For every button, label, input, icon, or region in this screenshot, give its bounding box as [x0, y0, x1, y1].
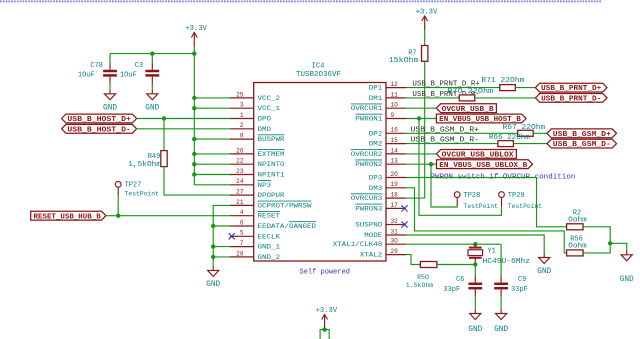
- svg-text:OVCUR_USB_B: OVCUR_USB_B: [442, 106, 495, 114]
- wire R50 to crystal: [437, 264, 475, 266]
- wire DM2 to R66: [406, 143, 498, 145]
- pin 17 PWRON3: [355, 202, 406, 214]
- svg-text:Self powered: Self powered: [300, 269, 351, 277]
- wire XTAL2 down: [406, 255, 420, 265]
- junction +3.3V/rail: [192, 51, 196, 55]
- svg-text:TP28: TP28: [464, 192, 481, 200]
- pin 7 GND_1: [230, 240, 280, 252]
- svg-text:OVCUR_USB_UBLOX: OVCUR_USB_UBLOX: [442, 152, 515, 160]
- svg-text:MODE: MODE: [364, 232, 382, 240]
- wire XTAL1 to crystal and C9: [406, 243, 501, 245]
- svg-text:7: 7: [240, 240, 244, 247]
- svg-text:2O: 2O: [391, 171, 399, 178]
- wire rail to pin 22: [194, 163, 230, 165]
- svg-text:USB_B_HOST_D-: USB_B_HOST_D-: [67, 126, 131, 134]
- junction rail/pin22: [192, 162, 196, 166]
- svg-text:22: 22: [236, 158, 244, 165]
- wire rail to pin 23: [194, 174, 230, 176]
- wire R56 to junction: [583, 243, 610, 253]
- junction rail/pin23: [192, 172, 196, 176]
- junction pin28: [211, 255, 215, 259]
- wire R49 to DPOPUR pin 27: [164, 167, 230, 196]
- wire RESET_USB_HUB_B to pin 4: [106, 215, 230, 217]
- ground C6: [468, 309, 482, 334]
- wire OVRCUR1 to label: [406, 107, 436, 109]
- svg-text:GND: GND: [468, 326, 482, 334]
- IC IC4 TUSB2036VF body: [254, 83, 386, 262]
- svg-text:3O: 3O: [391, 238, 399, 245]
- wire +3.3V to R7: [424, 30, 426, 46]
- wire +3.3V rail down: [193, 54, 195, 185]
- svg-text:1,5kOhm: 1,5kOhm: [128, 161, 161, 169]
- svg-text:DPO: DPO: [258, 116, 272, 124]
- wire R66 to label: [513, 143, 547, 145]
- resistor R50: [420, 262, 437, 268]
- wire rail to pin 8: [194, 138, 230, 140]
- svg-text:GND: GND: [103, 104, 117, 112]
- svg-text:NPINTO: NPINTO: [258, 161, 285, 169]
- pin 4 RESET: [230, 209, 280, 221]
- wire rail to pin 3: [194, 107, 230, 109]
- no-connect pin 32 SUSPND: [401, 221, 407, 227]
- top border dashed line: [0, 0, 602, 2]
- svg-text:TUSB2O36VF: TUSB2O36VF: [296, 71, 341, 79]
- svg-text:DPOPUR: DPOPUR: [258, 192, 285, 200]
- wire PWRON2 to TP28: [431, 164, 457, 207]
- pin 31 MODE: [364, 228, 406, 240]
- svg-text:USB_B_PRNT_D+: USB_B_PRNT_D+: [541, 85, 601, 93]
- svg-text:OCPROT/PWRSW: OCPROT/PWRSW: [258, 202, 313, 210]
- pin 32 SUSPND: [355, 218, 406, 230]
- global label USB_B_GSM_D+: [547, 129, 617, 138]
- junction PWRON2/TP28: [429, 162, 433, 166]
- svg-text:33pF: 33pF: [511, 286, 528, 294]
- crystal Y1: [468, 244, 483, 264]
- wire DM3 to R56: [406, 188, 567, 253]
- wire R70 to label: [475, 97, 536, 99]
- wire cap top rail: [110, 53, 194, 55]
- junction bottom +3.3V: [322, 327, 326, 331]
- wire C3 top: [151, 54, 153, 63]
- svg-text:TestPoint: TestPoint: [464, 203, 498, 210]
- svg-text:DP3: DP3: [369, 175, 383, 183]
- svg-text:DP1: DP1: [369, 85, 383, 93]
- ground OCPROT net: [206, 266, 220, 289]
- pin 16 DP2: [369, 127, 406, 139]
- svg-text:EN_VBUS_USB_UBLOX_B: EN_VBUS_USB_UBLOX_B: [439, 162, 528, 170]
- svg-text:C3: C3: [135, 62, 143, 70]
- power +3.3V top-right: [422, 16, 428, 30]
- svg-text:1O: 1O: [391, 102, 399, 109]
- wire C9 to GND: [500, 297, 502, 310]
- svg-text:VCC_1: VCC_1: [258, 105, 281, 113]
- svg-text:XTAL2: XTAL2: [360, 252, 383, 260]
- svg-text:24: 24: [236, 178, 244, 185]
- svg-text:GND: GND: [537, 268, 551, 276]
- svg-text:RESET_USB_HUB_B: RESET_USB_HUB_B: [34, 213, 102, 221]
- pin 15 DM2: [369, 137, 406, 149]
- svg-text:Oohm: Oohm: [568, 216, 587, 224]
- pin 19 DM3: [369, 181, 406, 193]
- svg-text:27: 27: [236, 189, 244, 196]
- pin 29 XTAL2: [360, 248, 406, 260]
- wire XTAL1 node down to C9: [500, 244, 502, 275]
- ground C9: [494, 309, 508, 334]
- svg-text:11: 11: [391, 91, 399, 98]
- junction crystal top: [473, 242, 477, 246]
- resistor R71: [500, 85, 516, 91]
- svg-text:3: 3: [240, 102, 244, 109]
- junction PWRON1/TP29: [417, 116, 421, 120]
- svg-text:14: 14: [391, 147, 399, 154]
- wire R2 to junction: [583, 227, 610, 244]
- global label EN_VBUS_USB_HOST_B: [436, 114, 526, 123]
- pin 12 DP1: [369, 81, 406, 93]
- global label USB_B_GSM_D-: [547, 139, 617, 148]
- svg-text:IC4: IC4: [312, 63, 325, 71]
- no-connect pin 17 PWRON3: [401, 205, 407, 211]
- svg-text:EN_VBUS_USB_HOST_B: EN_VBUS_USB_HOST_B: [439, 116, 521, 124]
- pin 24 NP3: [230, 178, 271, 190]
- svg-text:17: 17: [391, 202, 399, 209]
- svg-text:C78: C78: [90, 62, 103, 70]
- wire to C6: [474, 265, 476, 276]
- svg-text:EXTMEM: EXTMEM: [258, 151, 285, 159]
- svg-text:4: 4: [240, 209, 244, 216]
- svg-text:NPINT1: NPINT1: [258, 172, 285, 180]
- pin 10 OVRCUR1: [351, 102, 406, 114]
- capacitor C9: [500, 276, 502, 283]
- svg-text:29: 29: [391, 248, 399, 255]
- test point TP27: [115, 181, 159, 197]
- wire MODE to GND: [406, 235, 544, 253]
- wire DP3 to R2: [406, 178, 567, 227]
- no-connect pin 5 EECLK: [229, 233, 235, 239]
- global label EN_VBUS_USB_UBLOX_B: [437, 160, 533, 169]
- svg-text:28: 28: [236, 250, 244, 257]
- svg-text:HC49U-6Mhz: HC49U-6Mhz: [483, 258, 531, 266]
- svg-text:1OuF: 1OuF: [78, 72, 95, 80]
- capacitor C9 plates: [494, 284, 508, 288]
- resistor R7: [422, 46, 428, 62]
- svg-text:DM3: DM3: [369, 185, 383, 193]
- svg-text:GND: GND: [206, 281, 220, 289]
- global label OVCUR_USB_B: [436, 104, 496, 113]
- svg-text:DP2: DP2: [369, 130, 383, 138]
- pin 25 VCC_2: [230, 91, 280, 103]
- pin 6 EEDATA/GANGED: [230, 219, 316, 231]
- svg-text:13: 13: [391, 158, 399, 165]
- svg-text:Oohm: Oohm: [568, 242, 587, 250]
- svg-text:OVRCUR3: OVRCUR3: [351, 195, 383, 203]
- svg-text:NP3: NP3: [258, 182, 272, 190]
- svg-text:8: 8: [240, 133, 244, 140]
- resistor R66: [498, 141, 514, 147]
- pin 1 DP0: [230, 112, 271, 124]
- wire R67 to label: [533, 132, 547, 134]
- resistor R56: [567, 250, 584, 256]
- wire PWRON1 to label: [406, 118, 436, 120]
- svg-text:R5O: R5O: [417, 274, 429, 281]
- wire DM1 to R70: [406, 97, 459, 99]
- svg-text:VCC_2: VCC_2: [258, 95, 281, 103]
- svg-text:USB_B_HOST_D+: USB_B_HOST_D+: [67, 116, 131, 124]
- wire R7 to OVRCUR3: [424, 61, 426, 198]
- svg-text:PWRON3: PWRON3: [355, 205, 382, 213]
- svg-text:BUSPWR: BUSPWR: [258, 136, 285, 144]
- svg-text:Y1: Y1: [487, 248, 495, 256]
- junction pin7: [211, 244, 215, 248]
- svg-text:GND: GND: [494, 326, 508, 334]
- wire OVRCUR2 to label: [406, 153, 437, 155]
- wire USB_B_HOST_D- to DM0: [137, 128, 230, 130]
- test point TP29: [499, 192, 543, 210]
- ground R2/R56: [620, 251, 634, 285]
- wire rail to pin 24: [194, 184, 230, 186]
- capacitor C78 plates: [103, 71, 117, 75]
- wire R71 to label: [515, 87, 535, 89]
- junction R2/R56: [608, 241, 612, 245]
- svg-text:5: 5: [240, 230, 244, 237]
- capacitor C3 plates: [145, 71, 159, 75]
- svg-text:15: 15: [391, 137, 399, 144]
- wire OVRCUR3 to R7: [406, 197, 425, 199]
- wire C78 bottom: [109, 84, 111, 90]
- svg-text:C6: C6: [456, 276, 464, 284]
- global label USB_B_HOST_D+: [62, 114, 137, 123]
- svg-text:21: 21: [236, 199, 244, 206]
- ground MODE: [537, 253, 551, 276]
- svg-text:RESET: RESET: [258, 213, 281, 221]
- wire TP27 down: [117, 196, 119, 216]
- svg-text:PWRON2: PWRON2: [355, 161, 382, 169]
- junction pin6: [211, 224, 215, 228]
- svg-text:32: 32: [391, 218, 399, 225]
- pin 27 DPOPUR: [230, 189, 285, 201]
- svg-text:R71 22Ohm: R71 22Ohm: [481, 77, 524, 85]
- svg-text:OVRCUR1: OVRCUR1: [351, 105, 383, 113]
- pin 13 PWRON2: [355, 158, 406, 170]
- wire DP0 to R49: [163, 119, 165, 151]
- capacitor C3: [151, 63, 153, 70]
- svg-text:XTAL1/CLK48: XTAL1/CLK48: [333, 241, 383, 249]
- svg-text:15kOhm: 15kOhm: [389, 57, 419, 65]
- svg-text:18: 18: [391, 192, 399, 199]
- svg-text:31: 31: [391, 228, 399, 235]
- wire C78 top: [109, 54, 111, 63]
- pin 3 VCC_1: [230, 102, 280, 114]
- svg-text:DM2: DM2: [369, 141, 383, 149]
- svg-text:PWRON1: PWRON1: [355, 116, 382, 124]
- pin 11 DM1: [369, 91, 406, 103]
- power +3.3V top-left: [191, 33, 197, 47]
- capacitor C6 plates: [468, 284, 482, 288]
- capacitor C6: [474, 276, 476, 283]
- pin 9 PWRON1: [355, 112, 406, 124]
- pin 18 OVRCUR3: [351, 192, 406, 204]
- pin 14 OVRCUR2: [351, 147, 406, 159]
- wire OCPROT down: [213, 205, 230, 266]
- power +3.3V bottom: [322, 315, 328, 329]
- wire PWRON2 to label: [406, 163, 437, 165]
- pin 20 DP3: [369, 171, 406, 183]
- wire junction to GND: [610, 243, 627, 250]
- svg-text:DMO: DMO: [258, 126, 272, 134]
- wire DP1 to R71: [406, 87, 500, 89]
- svg-text:33pF: 33pF: [443, 286, 460, 294]
- wire C6 to GND: [474, 297, 476, 310]
- global label OVCUR_USB_UBLOX: [437, 150, 517, 159]
- global label RESET_USB_HUB_B: [31, 211, 106, 220]
- svg-text:26: 26: [236, 147, 244, 154]
- wire to pin 7 GND_1: [213, 246, 230, 248]
- wire USB_B_HOST_D+ to DP0: [137, 118, 230, 120]
- junction rail/pin25: [192, 96, 196, 100]
- junction C3/rail: [150, 51, 154, 55]
- global label USB_B_PRNT_D+: [535, 83, 607, 92]
- svg-text:2: 2: [240, 122, 244, 129]
- test point TP28: [454, 192, 498, 210]
- junction rail/pin3: [192, 106, 196, 110]
- svg-text:12: 12: [391, 81, 399, 88]
- capacitor C78: [109, 63, 111, 70]
- svg-text:9: 9: [391, 112, 395, 119]
- ground C3: [145, 90, 159, 113]
- svg-text:25: 25: [236, 91, 244, 98]
- svg-text:6: 6: [240, 219, 244, 226]
- junction TP27/RESET: [116, 214, 120, 218]
- svg-text:GND: GND: [620, 276, 634, 284]
- resistor R67: [518, 130, 534, 136]
- pin 2 DM0: [230, 122, 271, 134]
- global label USB_B_HOST_D-: [62, 124, 137, 133]
- pin 23 NPINT1: [230, 168, 285, 180]
- wire +3.3V stem to rail: [193, 47, 195, 54]
- svg-text:16: 16: [391, 127, 399, 134]
- resistor R70: [459, 95, 475, 101]
- svg-text:+3.3V: +3.3V: [316, 307, 338, 315]
- svg-text:C9: C9: [518, 276, 526, 284]
- svg-text:OVRCUR2: OVRCUR2: [351, 151, 383, 159]
- svg-text:USB_B_PRNT_D-: USB_B_PRNT_D-: [541, 96, 601, 104]
- resistor R49: [161, 151, 167, 167]
- svg-text:GND_1: GND_1: [258, 244, 281, 252]
- junction DP0/R49: [162, 116, 166, 120]
- pin 22 NPINT0: [230, 158, 285, 170]
- svg-text:TestPoint: TestPoint: [125, 191, 159, 198]
- svg-text:GND: GND: [145, 104, 159, 112]
- svg-text:SUSPND: SUSPND: [355, 222, 382, 230]
- svg-text:+3.3V: +3.3V: [185, 25, 207, 33]
- svg-text:1: 1: [240, 112, 244, 119]
- svg-text:USB_B_GSM_D+: USB_B_GSM_D+: [553, 131, 611, 139]
- svg-text:TP29: TP29: [508, 192, 525, 200]
- pin 30 XTAL1/CLK48: [333, 238, 406, 250]
- pin 28 GND_2: [230, 250, 280, 262]
- svg-text:EECLK: EECLK: [258, 233, 281, 241]
- wire to pin 6 EEDATA: [213, 225, 230, 227]
- svg-text:+3.3V: +3.3V: [416, 8, 438, 16]
- svg-text:1OuF: 1OuF: [120, 72, 137, 80]
- svg-text:USB_B_GSM_D-: USB_B_GSM_D-: [553, 141, 611, 149]
- wire bottom +3.3V stubs: [320, 330, 329, 339]
- pin 5 EECLK: [230, 230, 280, 242]
- pin 26 EXTMEM: [230, 147, 285, 159]
- pin 21 OCPROT/PWRSW: [230, 199, 313, 211]
- wire rail to pin 26: [194, 153, 230, 155]
- junction rail/pin26: [192, 152, 196, 156]
- svg-text:23: 23: [236, 168, 244, 175]
- wire C3 bottom: [151, 84, 153, 90]
- svg-text:19: 19: [391, 181, 399, 188]
- svg-text:GND_2: GND_2: [258, 254, 281, 262]
- wire rail to pin 25: [194, 97, 230, 99]
- pin 8 BUSPWR: [230, 133, 285, 145]
- junction crystal bottom: [473, 262, 477, 266]
- wire DP2 to R67: [406, 132, 518, 134]
- svg-text:DM1: DM1: [369, 95, 383, 103]
- svg-text:EEDATA/GANGED: EEDATA/GANGED: [258, 223, 317, 231]
- resistor R2: [567, 224, 584, 230]
- wire PWRON1 to TP29: [419, 119, 502, 216]
- junction rail/pin8: [192, 137, 196, 141]
- global label USB_B_PRNT_D-: [535, 94, 607, 103]
- svg-text:TP27: TP27: [125, 182, 142, 190]
- svg-text:1.5kOhm: 1.5kOhm: [406, 282, 433, 289]
- wire to pin 28 GND_2: [213, 256, 230, 258]
- ground C78: [103, 90, 117, 113]
